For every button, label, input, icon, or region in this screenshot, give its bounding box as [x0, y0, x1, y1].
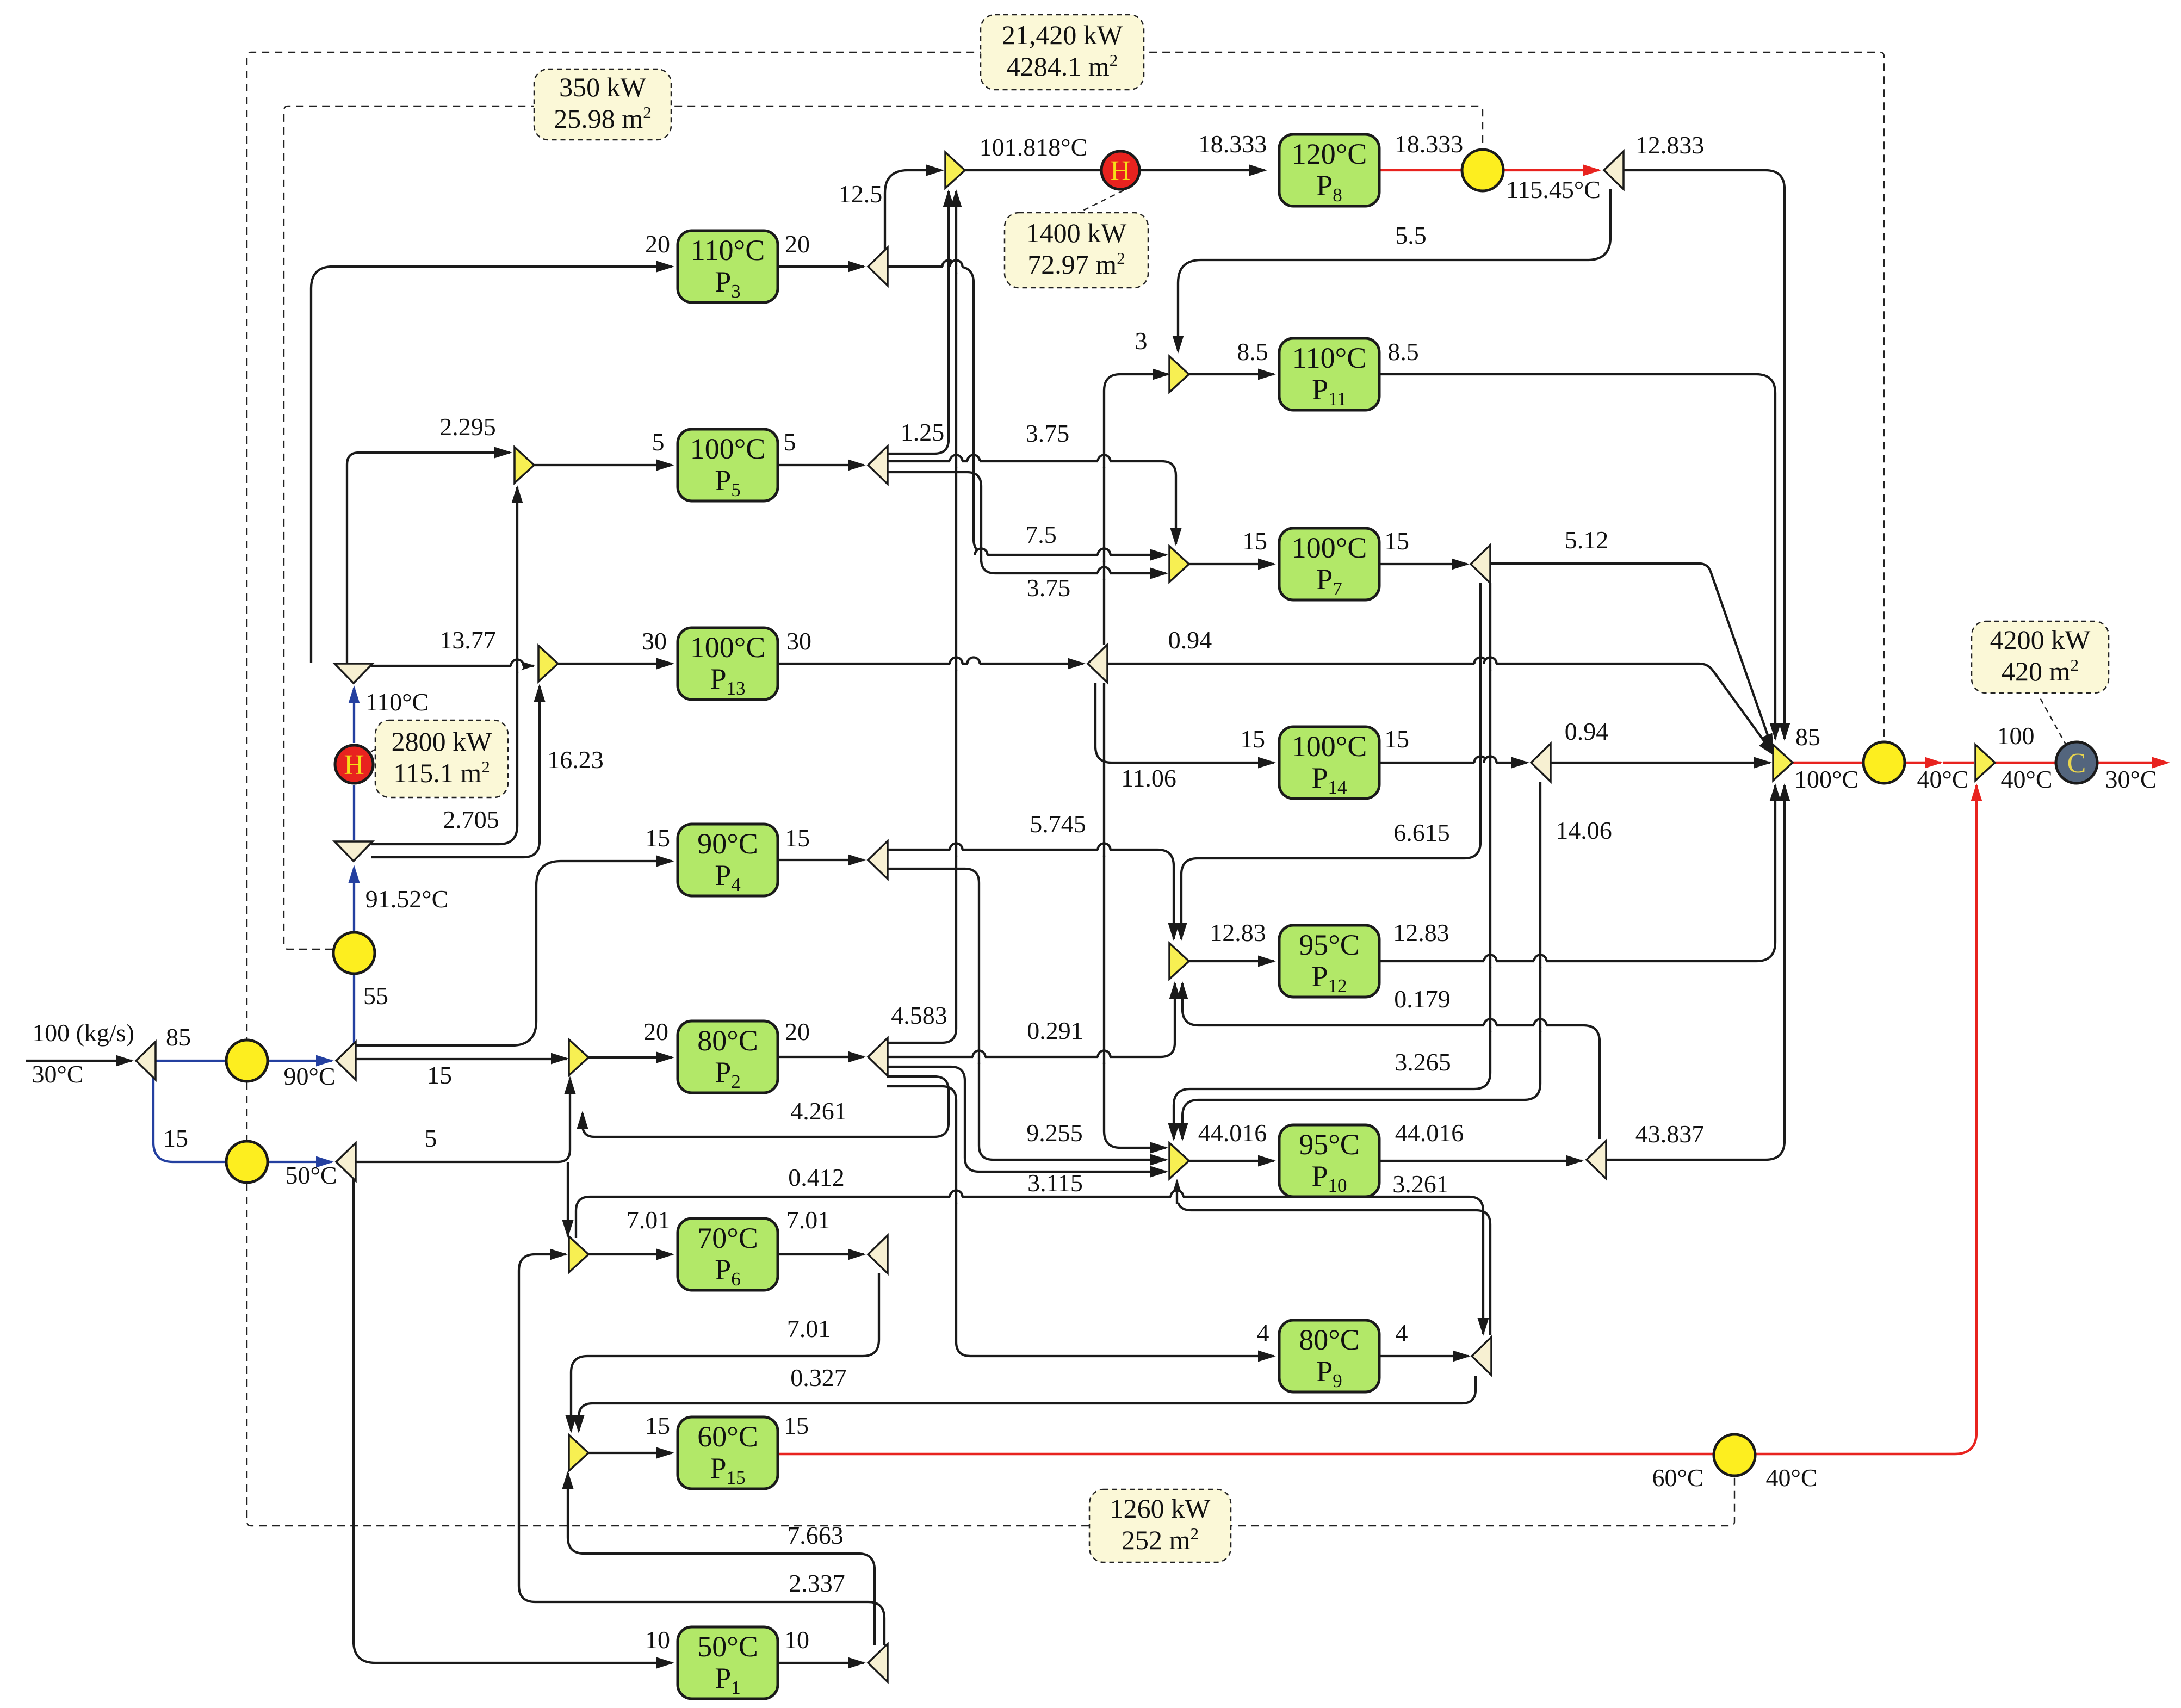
wire hop at 1758,1562 — [950, 843, 963, 857]
svg-text:8.5: 8.5 — [1237, 338, 1268, 366]
wire P4 out — [779, 859, 864, 861]
svg-text:7.01: 7.01 — [786, 1206, 831, 1234]
svg-text:12.833: 12.833 — [1635, 131, 1705, 159]
splitter after P8 cooler — [1604, 151, 1624, 189]
wire 11.06 — [1104, 683, 1166, 1148]
splitter T2 on blue column — [334, 841, 373, 861]
arrowhead P9 feed — [1258, 1351, 1276, 1362]
process P8 — [1279, 134, 1379, 206]
wire 5.5 — [1178, 189, 1610, 351]
svg-text:2.295: 2.295 — [439, 413, 496, 441]
wire 4.583 — [887, 191, 956, 1043]
svg-text:3: 3 — [1135, 327, 1148, 355]
wire P2 feed — [588, 1056, 672, 1059]
svg-text:420 m2: 420 m2 — [2002, 655, 2079, 686]
dashed tie 2800 kW — [371, 729, 413, 752]
wire hop at 2722,1220 — [1474, 657, 1487, 671]
wire P5 mixer out — [534, 464, 672, 466]
arrowhead 5.5 — [1173, 336, 1184, 354]
mixer before P15 — [569, 1435, 588, 1471]
svg-text:95°C: 95°C — [1299, 929, 1360, 961]
heater H main — [335, 745, 373, 783]
svg-text:2.337: 2.337 — [789, 1569, 845, 1597]
wire red 40C — [1906, 762, 1941, 764]
svg-text:100°C: 100°C — [1292, 730, 1367, 763]
svg-text:12.83: 12.83 — [1210, 919, 1266, 946]
wire hop at 2030,1943 — [1098, 1050, 1111, 1064]
wire 3.75a — [887, 461, 1176, 544]
process P9 — [1279, 1320, 1379, 1392]
wire hop at 1744,490 — [943, 259, 955, 274]
wire 5.12 — [1490, 564, 1773, 751]
svg-text:0.94: 0.94 — [1168, 626, 1212, 654]
dashed loop 21420 kW — [247, 52, 1884, 1044]
wire 2.337 — [519, 1254, 884, 1645]
arrowhead P12 feed — [1258, 956, 1276, 967]
wire 16.23 — [371, 686, 540, 857]
svg-text:4: 4 — [1396, 1319, 1408, 1347]
splitter feed 100 — [136, 1042, 156, 1080]
wire hop at 2832,1885 — [1534, 1018, 1547, 1032]
wire 0.94 from P13 — [1106, 664, 1774, 755]
svg-text:5: 5 — [652, 428, 665, 456]
wire P10 feed — [1189, 1160, 1274, 1162]
process P2 — [678, 1021, 778, 1093]
svg-text:95°C: 95°C — [1299, 1128, 1360, 1161]
svg-text:10: 10 — [784, 1626, 809, 1654]
dashed segment between Y1 Y3 — [246, 1082, 247, 1140]
arrowhead 1.25 — [943, 189, 955, 207]
cooler C — [2056, 742, 2097, 783]
svg-text:1260 kW: 1260 kW — [1110, 1493, 1211, 1524]
wire red 85 — [1793, 762, 1862, 764]
wire hop at 2722,1402 — [1474, 756, 1487, 770]
wire 6.615 — [1181, 583, 1480, 939]
wire hop at 1758,1220 — [950, 657, 963, 671]
wire hop at 2832,1767 — [1534, 954, 1547, 968]
wire 12.5 — [885, 170, 941, 267]
arrowhead P13 feed — [656, 658, 674, 670]
splitter after P13 — [1088, 645, 1107, 683]
svg-text:40°C: 40°C — [1765, 1464, 1817, 1492]
mixer 101.818C — [945, 152, 965, 188]
arrowhead 0.412 down — [1478, 1318, 1489, 1336]
process P14 — [1279, 727, 1379, 799]
svg-text:9.255: 9.255 — [1026, 1119, 1083, 1147]
svg-text:100°C: 100°C — [1794, 765, 1858, 793]
arrowhead P9 out — [1453, 1351, 1471, 1362]
wire 7.663 — [568, 1473, 875, 1645]
mixer before P5 — [515, 447, 534, 483]
wire hop at 2030,1562 — [1098, 843, 1111, 857]
process P13 — [678, 628, 778, 700]
svg-text:110°C: 110°C — [365, 688, 429, 716]
svg-text:5: 5 — [425, 1124, 437, 1152]
svg-text:1400 kW: 1400 kW — [1026, 218, 1127, 248]
wire 110C blue upper — [353, 688, 355, 743]
wire hop at 2740,1885 — [1484, 1018, 1497, 1032]
wire hop at 1758,848 — [950, 454, 963, 468]
arrowhead 7.5 — [1150, 549, 1168, 561]
wire hop at 1758,490 — [950, 259, 963, 274]
arrowhead 0.94 main — [1754, 757, 1772, 769]
wire 3.265 — [1174, 583, 1490, 1139]
svg-text:H: H — [344, 750, 364, 781]
svg-text:2.705: 2.705 — [443, 806, 499, 833]
arrowhead P13 out — [1068, 658, 1086, 670]
wire 10 to P1 — [354, 1172, 672, 1663]
arrowhead 5.745 down — [1168, 923, 1180, 941]
wire hop at 2740,1767 — [1484, 954, 1497, 968]
arrowhead 44.016 — [1566, 1155, 1584, 1167]
arrowhead 9.255 — [1150, 1154, 1168, 1166]
arrowhead branch P6 top — [562, 1220, 574, 1238]
svg-text:0.94: 0.94 — [1565, 717, 1609, 745]
wire 0.94 main — [1550, 762, 1770, 764]
svg-text:4200 kW: 4200 kW — [1990, 624, 2091, 655]
arrowhead 3.75a — [1170, 528, 1182, 546]
arrowhead 15 to P4 — [656, 856, 674, 867]
exchanger end Y2 — [333, 932, 375, 974]
mixer before P12 — [1169, 943, 1189, 979]
wire 4.261 — [583, 1076, 949, 1137]
wire 13.77 — [371, 665, 534, 667]
process P10 — [1279, 1125, 1379, 1197]
svg-text:85: 85 — [166, 1023, 191, 1051]
arrowhead P6 feed — [656, 1249, 674, 1260]
wire 43.837 — [1607, 785, 1785, 1160]
wire 7.01 loop — [571, 1273, 879, 1431]
arrowhead 6.615 down — [1176, 923, 1187, 941]
arrowhead 15 to P14 — [1258, 757, 1276, 769]
dashed loop 1260 kW — [247, 1184, 1734, 1526]
svg-text:60°C: 60°C — [697, 1420, 758, 1453]
svg-text:10: 10 — [645, 1626, 670, 1654]
svg-text:91.52°C: 91.52°C — [365, 885, 449, 913]
exchanger end Y3 — [226, 1141, 268, 1183]
splitter after P7 — [1471, 545, 1490, 583]
svg-text:40°C: 40°C — [1917, 765, 1968, 793]
arrowhead 12.833 — [1779, 723, 1790, 741]
svg-text:30°C: 30°C — [32, 1060, 83, 1088]
arrowhead P3 out — [848, 261, 866, 273]
svg-text:3.265: 3.265 — [1395, 1048, 1451, 1076]
svg-text:55: 55 — [363, 982, 388, 1010]
svg-text:20: 20 — [643, 1018, 668, 1045]
svg-text:14.06: 14.06 — [1556, 816, 1612, 844]
splitter 0.94/14.06 — [1531, 744, 1551, 782]
svg-text:1.25: 1.25 — [901, 418, 945, 446]
svg-text:110°C: 110°C — [691, 234, 765, 267]
svg-text:50°C: 50°C — [285, 1161, 337, 1189]
arrowhead P6 out — [848, 1249, 866, 1260]
svg-text:30°C: 30°C — [2105, 765, 2157, 793]
svg-text:80°C: 80°C — [697, 1024, 758, 1057]
svg-text:44.016: 44.016 — [1395, 1119, 1464, 1147]
arrowhead 2.705 — [512, 485, 523, 503]
process P15 — [678, 1417, 778, 1489]
svg-text:40°C: 40°C — [2000, 765, 2052, 793]
svg-text:5.5: 5.5 — [1395, 221, 1427, 249]
process P5 — [678, 429, 778, 501]
wire 15 blue — [153, 1062, 332, 1162]
svg-text:0.412: 0.412 — [788, 1164, 845, 1191]
wire hop at 1758,2200 — [950, 1190, 963, 1204]
wire 15 to P14 — [1095, 683, 1274, 763]
arrowhead 7.663 up — [562, 1471, 574, 1489]
wire P11 feed — [1189, 373, 1274, 375]
svg-text:252 m2: 252 m2 — [1122, 1524, 1199, 1555]
note 21420 kW — [981, 15, 1144, 90]
process P4 — [678, 824, 778, 896]
svg-text:3.75: 3.75 — [1027, 574, 1071, 602]
wire P1 out — [779, 1662, 864, 1664]
arrowhead 14.06 down — [1177, 1123, 1188, 1141]
svg-text:25.98 m2: 25.98 m2 — [554, 103, 651, 134]
splitter after P6 — [868, 1235, 888, 1273]
arrowhead 11.06 — [1150, 1142, 1168, 1154]
svg-text:80°C: 80°C — [1299, 1323, 1360, 1356]
wire P15 feed — [588, 1452, 672, 1454]
wire 110C blue lower — [353, 785, 355, 840]
svg-text:21,420 kW: 21,420 kW — [1002, 20, 1123, 50]
wire 5 line — [356, 1078, 570, 1162]
svg-text:6.615: 6.615 — [1393, 819, 1450, 846]
mixer before P6 — [569, 1236, 588, 1272]
arrowhead P5 out — [848, 460, 866, 471]
wire P6 out — [779, 1253, 864, 1255]
svg-text:7.5: 7.5 — [1025, 521, 1057, 548]
wire red C out — [2098, 762, 2165, 764]
process P1 — [678, 1627, 778, 1699]
arrowhead P11 feed — [1258, 369, 1276, 380]
svg-text:115.45°C: 115.45°C — [1506, 176, 1601, 203]
splitter T1 on blue column — [334, 664, 373, 683]
wire hop at 1804,1020 — [975, 548, 988, 562]
arrowhead 15 blue — [316, 1156, 334, 1168]
svg-text:12.83: 12.83 — [1393, 919, 1449, 946]
svg-text:85: 85 — [1795, 723, 1820, 751]
svg-text:90°C: 90°C — [283, 1062, 335, 1090]
exchanger end Y6 — [1714, 1434, 1755, 1476]
note 350 kW — [534, 69, 671, 140]
note 1260 kW — [1089, 1489, 1231, 1562]
wire 3.115 — [887, 1067, 1166, 1172]
dashed loop 350 kW — [284, 106, 1483, 949]
svg-text:C: C — [2067, 748, 2086, 779]
svg-text:18.333: 18.333 — [1395, 130, 1464, 158]
mixer before P7 — [1169, 546, 1189, 582]
svg-text:3.261: 3.261 — [1392, 1170, 1449, 1198]
arrowhead 3.265 down — [1168, 1123, 1180, 1141]
splitter after P4 — [868, 841, 888, 879]
svg-text:15: 15 — [785, 824, 810, 852]
svg-text:100°C: 100°C — [690, 432, 766, 465]
svg-text:3.115: 3.115 — [1027, 1169, 1083, 1197]
wire hop at 2030,1020 — [1098, 548, 1111, 562]
process P12 — [1279, 925, 1379, 997]
arrowhead 91.52 blue — [349, 865, 360, 883]
svg-text:2800 kW: 2800 kW — [392, 726, 493, 757]
arrowhead red 40C — [1925, 757, 1943, 769]
svg-text:0.179: 0.179 — [1394, 985, 1451, 1013]
arrowhead 4.583 — [951, 189, 962, 207]
wire P8 out red — [1380, 169, 1461, 171]
svg-text:4284.1 m2: 4284.1 m2 — [1007, 51, 1118, 82]
svg-text:15: 15 — [163, 1124, 188, 1152]
svg-text:100°C: 100°C — [690, 631, 766, 664]
process P7 — [1279, 528, 1379, 600]
arrowhead 16.23 — [534, 684, 546, 702]
svg-text:44.016: 44.016 — [1198, 1119, 1267, 1147]
splitter after P3 — [868, 247, 888, 286]
note 1400 kW — [1005, 213, 1148, 288]
wire 9.255 — [887, 869, 1166, 1160]
svg-text:11.06: 11.06 — [1121, 764, 1176, 792]
wire P13 out — [779, 663, 1083, 665]
svg-text:7.01: 7.01 — [787, 1315, 831, 1342]
wire 5.745 — [887, 850, 1174, 939]
wire P2 out — [779, 1056, 864, 1058]
arrowhead 3 — [1153, 369, 1170, 380]
node 90C — [336, 1042, 356, 1080]
node 50C — [336, 1143, 356, 1181]
arrowhead P2 feed — [656, 1052, 674, 1063]
arrowhead red P8 — [1583, 165, 1601, 176]
dashed tie 1400 kW — [1074, 186, 1132, 215]
wire 0.291 — [887, 983, 1175, 1057]
mixer before P13 — [538, 646, 558, 682]
arrowhead 20 feed P3 — [656, 261, 674, 273]
svg-text:7.01: 7.01 — [627, 1206, 671, 1234]
arrowhead 0.179 up — [1177, 981, 1188, 999]
wire P9 out 4 — [1380, 1355, 1469, 1357]
wire hop at 2740,1402 — [1484, 756, 1497, 770]
wire 91.52C blue — [353, 868, 355, 932]
svg-text:18.333: 18.333 — [1198, 130, 1267, 158]
wire feed P9 4 — [887, 1086, 1274, 1356]
arrowhead P15 feed — [656, 1447, 674, 1459]
svg-text:15: 15 — [1384, 527, 1409, 555]
arrowhead 8.5 down — [1770, 723, 1781, 741]
arrowhead P5 feed — [656, 460, 674, 471]
svg-text:20: 20 — [785, 1018, 810, 1045]
wire P10 out 44.016 — [1380, 1160, 1582, 1162]
arrowhead P2 out — [848, 1051, 866, 1063]
wire 15 to P2 mixer — [356, 1058, 567, 1060]
svg-text:101.818°C: 101.818°C — [980, 133, 1088, 161]
svg-text:4: 4 — [1257, 1319, 1269, 1347]
svg-text:100 (kg/s): 100 (kg/s) — [32, 1019, 134, 1047]
dashed tie 4200 kW — [2039, 695, 2067, 746]
arrowhead 13.77 — [517, 660, 535, 672]
svg-text:4.583: 4.583 — [891, 1001, 947, 1029]
arrowhead 110C blue — [349, 685, 360, 703]
arrowhead 4.261 up — [577, 1111, 588, 1129]
wire P15 out red — [779, 1453, 1713, 1456]
svg-text:3.75: 3.75 — [1026, 419, 1070, 447]
arrowhead P10 feed — [1258, 1155, 1276, 1167]
splitter 44.016/43.837 — [1587, 1141, 1606, 1179]
wire P6 feed — [588, 1253, 672, 1255]
mixer 85 collect — [1773, 745, 1793, 781]
arrowhead red riser — [1971, 783, 1982, 801]
wire 55 blue — [353, 974, 355, 1043]
svg-text:100: 100 — [1997, 722, 2035, 750]
mixer before P10 — [1169, 1143, 1189, 1179]
wire P8 red 2 — [1504, 169, 1599, 171]
svg-text:13.77: 13.77 — [439, 626, 496, 654]
wire 3 riser — [1104, 374, 1168, 645]
arrowhead 2.295 — [494, 447, 512, 459]
wire hop at 1790,848 — [968, 454, 980, 468]
svg-text:5.12: 5.12 — [1565, 526, 1609, 554]
svg-text:110°C: 110°C — [1292, 342, 1367, 374]
wire P12 feed — [1189, 960, 1274, 962]
svg-text:15: 15 — [645, 1412, 670, 1439]
wire red C in — [1995, 762, 2055, 764]
arrowhead 2.337 right — [550, 1249, 568, 1260]
wire hop at 2164,2200 — [1171, 1190, 1184, 1204]
arrowhead 3.261 up — [1172, 1179, 1183, 1197]
svg-text:5.745: 5.745 — [1030, 810, 1086, 838]
exchanger end Y5 — [1863, 742, 1905, 783]
wire 20 feed P3 — [311, 267, 672, 663]
svg-text:0.291: 0.291 — [1027, 1017, 1083, 1044]
arrowhead 15 to P2 mixer — [551, 1053, 569, 1065]
arrowhead 0.291 up — [1169, 981, 1181, 999]
arrowhead 3.75b — [1150, 568, 1168, 579]
svg-text:0.327: 0.327 — [790, 1364, 847, 1391]
svg-text:30: 30 — [786, 627, 811, 655]
wire 12.833 — [1617, 170, 1785, 739]
svg-text:115.1 m2: 115.1 m2 — [393, 757, 490, 788]
wire 0.179 — [1182, 983, 1600, 1139]
arrowhead red out — [2152, 757, 2170, 769]
wire 85 blue — [154, 1060, 332, 1062]
arrowhead P7 out — [1452, 559, 1470, 570]
arrowhead 7.01 loop down — [566, 1415, 577, 1433]
wire P12 out 12.83 — [1380, 785, 1775, 961]
svg-text:12.5: 12.5 — [839, 180, 883, 208]
svg-text:60°C: 60°C — [1652, 1464, 1703, 1492]
wire P13 feed — [558, 663, 672, 665]
arrowhead P8 feed — [1249, 165, 1267, 176]
wire P5 out — [779, 464, 864, 466]
wire branch to P6 mixer top — [567, 1162, 569, 1236]
wire red riser — [1756, 785, 1976, 1454]
process P6 — [678, 1218, 778, 1290]
wire 2.705 — [371, 487, 517, 844]
wire 101.818C — [965, 169, 1265, 171]
process P3 — [678, 231, 778, 302]
note 2800 kW — [375, 720, 508, 797]
wire hop at 951,1224 — [511, 659, 524, 673]
wire P7 feed — [1189, 563, 1274, 565]
wire 7.5 — [887, 267, 1166, 555]
mixer before P11 — [1169, 356, 1189, 392]
svg-text:50°C: 50°C — [697, 1630, 758, 1663]
svg-text:7.663: 7.663 — [787, 1521, 844, 1549]
arrowhead feed — [116, 1055, 134, 1067]
process P11 — [1279, 338, 1379, 410]
splitter after P9 — [1472, 1337, 1491, 1375]
wire 3.75b — [887, 472, 1166, 573]
svg-text:15: 15 — [1384, 725, 1409, 753]
svg-text:16.23: 16.23 — [547, 746, 604, 773]
svg-text:70°C: 70°C — [697, 1222, 758, 1254]
svg-text:8.5: 8.5 — [1387, 338, 1419, 366]
